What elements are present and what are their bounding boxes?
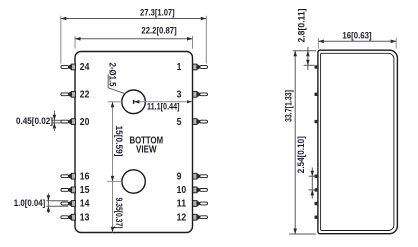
svg-text:1.0[0.04]: 1.0[0.04] (14, 198, 46, 208)
svg-text:10: 10 (177, 185, 187, 196)
label BOTTOM VIEW (130, 135, 164, 155)
svg-text:VIEW: VIEW (136, 145, 157, 156)
dimension 0.45[0.02] lead thickness (16, 111, 62, 132)
svg-text:9: 9 (177, 171, 182, 182)
dimension 22.2[0.87] (75, 25, 193, 48)
leader 2-O1.5 holes (108, 63, 126, 94)
pin 11 (193, 201, 208, 207)
dimension 1.0[0.04] pin width (14, 194, 69, 214)
pin 5 (193, 119, 208, 125)
pin 12 (193, 214, 208, 220)
svg-text:0.45[0.02]: 0.45[0.02] (16, 116, 53, 126)
side pin stub row 15 (315, 188, 319, 191)
dimension 15[0.59] hole spacing (107, 102, 124, 182)
pin 13 (61, 214, 76, 220)
side pin stub row 14 (315, 202, 319, 205)
svg-text:16: 16 (80, 171, 90, 182)
side pin stub row 24 (315, 65, 319, 68)
svg-text:27.3[1.07]: 27.3[1.07] (140, 8, 175, 18)
mounting hole upper (122, 90, 146, 114)
svg-text:2-Ø1.5: 2-Ø1.5 (108, 63, 118, 87)
svg-text:16[0.63]: 16[0.63] (342, 30, 371, 40)
side pin stub row 16 (315, 175, 319, 178)
dimension 9.35[0.37] hole to edge (111, 181, 124, 232)
pin 20 (61, 119, 76, 125)
pin 24 (61, 64, 76, 70)
pin 3 (193, 91, 208, 97)
package body side view outer (318, 50, 398, 234)
pin 22 (61, 91, 76, 97)
pin 1 (193, 64, 208, 70)
svg-text:33.7[1.33]: 33.7[1.33] (283, 90, 293, 122)
svg-text:20: 20 (80, 117, 90, 128)
svg-text:11.1[0.44]: 11.1[0.44] (147, 102, 180, 112)
dimension 27.3[1.07] (61, 8, 207, 64)
svg-text:11: 11 (177, 199, 187, 210)
side pin stub row 20 (315, 120, 319, 123)
side pin stub row 13 (315, 216, 319, 219)
dimension 2.8[0.11] (293, 9, 316, 71)
mounting hole lower (122, 170, 145, 193)
dimension 33.7[1.33] (283, 51, 316, 234)
svg-text:2.54[0.10]: 2.54[0.10] (296, 136, 306, 173)
svg-text:5: 5 (177, 117, 182, 128)
dimension 11.1[0.44] hole to edge (134, 100, 193, 112)
svg-text:9.35[0.37]: 9.35[0.37] (114, 198, 124, 229)
dimension 16[0.63] (318, 30, 396, 48)
svg-text:15: 15 (80, 185, 90, 196)
side pin stub row 22 (315, 93, 319, 96)
svg-text:1: 1 (177, 62, 182, 73)
svg-text:12: 12 (177, 212, 187, 223)
pin 16 (61, 173, 76, 179)
svg-text:15[0.59]: 15[0.59] (114, 126, 124, 157)
svg-text:3: 3 (177, 90, 182, 101)
package body bottom view (75, 52, 193, 233)
svg-text:22.2[0.87]: 22.2[0.87] (141, 25, 176, 35)
pin 14 (61, 201, 76, 207)
svg-text:13: 13 (80, 212, 90, 223)
svg-text:22: 22 (80, 90, 90, 101)
svg-text:14: 14 (80, 199, 90, 210)
dimension 2.54[0.10] pin pitch (296, 136, 315, 198)
pin 9 (193, 173, 208, 179)
pin 10 (193, 187, 208, 193)
svg-text:24: 24 (80, 62, 90, 73)
pin 15 (61, 187, 76, 193)
svg-text:2.8[0.11]: 2.8[0.11] (297, 9, 307, 43)
package body side view inner (321, 53, 394, 230)
